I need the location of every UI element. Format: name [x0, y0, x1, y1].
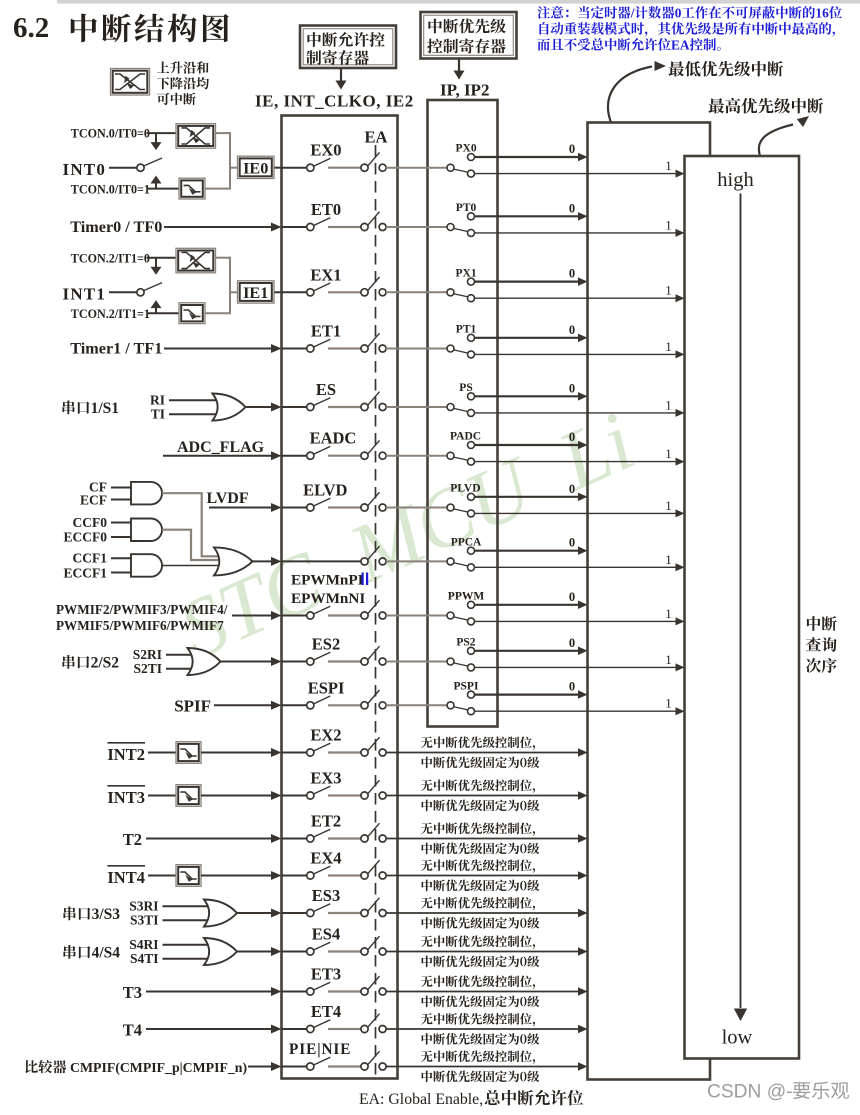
falling-edge detector box (INT0) [179, 178, 205, 199]
falling-edge detector box (INT3) [176, 785, 201, 807]
both-edge detector box (INT0) [176, 124, 216, 149]
wire into priority switch PPCA [428, 560, 448, 562]
priority-1 wire PT1 [474, 353, 675, 355]
enable switch ES3 [307, 909, 314, 916]
wire IE1 to enable box [275, 291, 282, 293]
svg-text:Timer0 / TF0: Timer0 / TF0 [70, 218, 162, 236]
svg-text:EA: Global Enable,: EA: Global Enable, [359, 1091, 483, 1108]
EA switch contact [361, 504, 368, 511]
priority-0 wire PT1 [474, 337, 578, 339]
falling-edge detector box (INT2) [176, 742, 201, 764]
svg-text:TCON.2/IT1=0: TCON.2/IT1=0 [71, 251, 150, 265]
EA switch contact [361, 223, 368, 230]
priority-0 wire PPCA [474, 550, 578, 552]
priority-0 wire PS2 [474, 650, 578, 652]
wire EX3 to EA switch [328, 794, 361, 796]
label 中断查询次序 [807, 616, 821, 631]
wire Timer1 to enable box [164, 348, 273, 350]
level-0 interrupt box (lowest priority) [588, 123, 711, 1080]
svg-text:1/S1: 1/S1 [91, 400, 119, 417]
enable switch ES4 [307, 948, 314, 955]
svg-text:S2RI: S2RI [133, 647, 162, 662]
svg-text:ES: ES [316, 380, 336, 399]
wire EX1 row to priority box [386, 291, 428, 293]
wire ELVD row to priority box [386, 507, 428, 509]
wire ESPI row to priority box [386, 704, 428, 706]
svg-text:PWMIF5/PWMIF6/PWMIF7: PWMIF5/PWMIF6/PWMIF7 [56, 618, 224, 633]
svg-text:S4RI: S4RI [129, 937, 158, 952]
svg-text:PIE|NIE: PIE|NIE [289, 1041, 351, 1058]
EA switch contact [361, 1025, 368, 1032]
wire TCON.2/IT1=1 to falling-edge detector [147, 312, 181, 314]
svg-text:1: 1 [665, 498, 672, 513]
svg-text:3/S3: 3/S3 [92, 906, 121, 923]
enable switch None [307, 612, 314, 619]
wire to lowest-priority box (fixed level 0) [386, 795, 578, 797]
svg-text:IE, INT_CLKO, IE2: IE, INT_CLKO, IE2 [255, 92, 414, 111]
svg-text:ES3: ES3 [312, 886, 340, 905]
selector switch INT0 [137, 164, 144, 171]
wire CMPIF to enable box [248, 1066, 273, 1068]
wire EX0 row to priority box [386, 167, 428, 169]
wire SPIF to enable box [214, 704, 273, 706]
legend both-edge box [111, 69, 150, 96]
svg-text:1: 1 [665, 217, 672, 232]
svg-text:PS2: PS2 [456, 637, 475, 649]
wire to lowest-priority box (fixed level 0) [386, 752, 578, 754]
wire PWMIF to enable box [232, 615, 273, 617]
label: no priority control bits [421, 936, 433, 948]
wire ES row to priority box [386, 406, 428, 408]
svg-text:CMPIF(CMPIF_p|CMPIF_n): CMPIF(CMPIF_p|CMPIF_n) [67, 1060, 247, 1076]
svg-text:/: / [630, 6, 635, 21]
legend text 上升沿和下降沿均可中断 [157, 61, 169, 72]
input 串口2/S2 [62, 655, 74, 669]
priority-1 wire PSPI [474, 710, 675, 712]
EA dashed control line [375, 145, 377, 1078]
note (blue): timer0 NMI remark [537, 6, 550, 19]
svg-text:ES2: ES2 [312, 635, 340, 654]
wire INT2 to falling-edge detector [148, 752, 176, 754]
EA switch contact [361, 1063, 368, 1070]
svg-text:INT1: INT1 [63, 285, 107, 304]
svg-text:T2: T2 [123, 830, 142, 849]
wire OR output to enable box [220, 661, 273, 663]
curved arrow to lowest priority [608, 67, 652, 123]
svg-text:IP, IP2: IP, IP2 [440, 81, 489, 100]
priority-1 wire PPWM [474, 620, 675, 622]
label: no priority control bits [421, 860, 433, 872]
wire to lowest-priority box (fixed level 0) [386, 951, 578, 953]
input 串口3/S3 [63, 906, 75, 920]
EA switch contact [361, 403, 368, 410]
svg-text:1: 1 [665, 652, 672, 667]
svg-text:EX2: EX2 [310, 726, 341, 745]
svg-text:4/S4: 4/S4 [92, 945, 121, 962]
svg-text:1: 1 [665, 397, 672, 412]
priority-0 wire PX1 [474, 281, 578, 283]
svg-text:TCON.0/IT0=1: TCON.0/IT0=1 [71, 182, 150, 196]
svg-text:INT0: INT0 [63, 160, 107, 179]
wire IE1 to EX1 switch [282, 291, 307, 293]
EA switch contact [361, 909, 368, 916]
svg-text:PT0: PT0 [456, 202, 477, 214]
wire detectors to IE1 flag [216, 257, 231, 259]
label: no priority control bits [421, 1013, 433, 1025]
EA switch contact [361, 612, 368, 619]
wire INT4 into enable box [201, 875, 273, 877]
EA switch contact [361, 872, 368, 879]
svg-text:TCON.2/IT1=1: TCON.2/IT1=1 [71, 307, 150, 321]
wire into priority switch PX0 [428, 167, 448, 169]
svg-text:0: 0 [569, 201, 575, 215]
wire into priority switch PS2 [428, 661, 448, 663]
IE1 flag box [238, 281, 275, 303]
svg-text:PX1: PX1 [456, 267, 477, 279]
wires into CCF1 AND gate [111, 557, 134, 559]
svg-text:0: 0 [675, 6, 682, 21]
wire CF-AND to PCA OR gate [162, 493, 221, 556]
enable switch EX3 [307, 792, 314, 799]
EA switch contact [361, 558, 368, 565]
wire ESPI to EA switch [328, 704, 361, 706]
svg-text:ECF: ECF [80, 493, 107, 508]
wire to lowest-priority box (fixed level 0) [386, 1066, 578, 1068]
svg-text:1: 1 [665, 606, 672, 621]
wire EX1 to EA switch [328, 291, 361, 293]
svg-text:2/S2: 2/S2 [91, 655, 120, 672]
AND gate CCF0&ECCF0 [131, 519, 162, 542]
svg-text:ADC_FLAG: ADC_FLAG [177, 439, 265, 456]
wires into OR gate [163, 944, 212, 946]
svg-text:IE0: IE0 [243, 159, 268, 177]
input 串口4/S4 [63, 945, 75, 959]
svg-text:low: low [722, 1027, 753, 1049]
svg-text:1: 1 [665, 283, 672, 298]
priority-0 wire PS [474, 395, 578, 397]
enable switch EX1 [307, 289, 314, 296]
page top gray bar [57, 0, 860, 4]
label: no priority control bits [421, 823, 433, 835]
wire to lowest-priority box (fixed level 0) [386, 875, 578, 877]
svg-text:Timer1 / TF1: Timer1 / TF1 [70, 340, 162, 358]
interrupt polling order arrow [740, 194, 742, 1009]
wire T2 to enable box [146, 838, 273, 840]
svg-text:LVDF: LVDF [207, 490, 249, 507]
wire into priority switch PT0 [428, 226, 448, 228]
enable switch ET1 [307, 345, 314, 352]
priority-1 wire PS2 [474, 666, 675, 668]
svg-text:PSPI: PSPI [454, 680, 479, 692]
priority-0 wire PX0 [474, 156, 578, 158]
svg-text:EX0: EX0 [310, 141, 341, 160]
arrow from priority register box [458, 59, 460, 71]
wire into priority switch PADC [428, 455, 448, 457]
svg-text:CSDN @-: CSDN @- [707, 1082, 793, 1103]
svg-text:0: 0 [569, 267, 575, 281]
wire T4 to enable box [146, 1028, 273, 1030]
svg-text:0: 0 [569, 430, 575, 444]
wire into priority switch PLVD [428, 507, 448, 509]
wire OR output to enable box [236, 912, 273, 914]
enable switch ES2 [307, 658, 314, 665]
wire TCON.0/IT0=0 to both-edge detector [147, 132, 177, 134]
enable switch PIE|NIE [307, 1063, 314, 1070]
wire ET1 to EA switch [328, 347, 361, 349]
wire ES4 to EA switch [328, 950, 361, 952]
priority-1 wire PT0 [474, 232, 675, 234]
wire ADC_FLAG to enable box [163, 455, 273, 457]
wire to lowest-priority box (fixed level 0) [386, 991, 578, 993]
svg-text:1: 1 [665, 696, 672, 711]
wire CCF0-AND to PCA OR gate [162, 530, 220, 560]
wire into priority switch PSPI [428, 704, 448, 706]
svg-text:S4TI: S4TI [130, 951, 159, 966]
EA switch contact [361, 452, 368, 459]
svg-text:EADC: EADC [310, 429, 357, 448]
svg-text:PT1: PT1 [456, 324, 477, 336]
svg-text:PWMIF2/PWMIF3/PWMIF4/: PWMIF2/PWMIF3/PWMIF4/ [56, 602, 228, 617]
svg-text:EPWMnNI: EPWMnNI [291, 590, 365, 607]
wire TCON.0/IT0=1 to falling-edge detector [147, 188, 181, 190]
input 比较器 CMPIF [25, 1060, 37, 1073]
wire Timer0 to enable box [164, 226, 273, 228]
svg-text:ECCF1: ECCF1 [64, 566, 108, 581]
priority-1 wire PADC [474, 461, 675, 463]
wire TCON.2/IT1=0 to both-edge detector [147, 257, 177, 259]
wire EX2 to EA switch [328, 751, 361, 753]
wire EX4 to EA switch [328, 874, 361, 876]
EA switch contact [361, 749, 368, 756]
svg-text:1: 1 [665, 446, 672, 461]
curved arrow to highest priority [759, 125, 793, 157]
wire PCA row to priority box [386, 560, 428, 562]
EA switch contact [361, 164, 368, 171]
wire into priority switch PT1 [428, 348, 448, 350]
wire ET2 to EA switch [328, 837, 361, 839]
AND gate CF&ECF [131, 482, 162, 505]
wire PCA row to EA switch [282, 560, 361, 562]
svg-text:IE1: IE1 [243, 284, 268, 302]
svg-text:0: 0 [569, 381, 575, 395]
svg-text:0: 0 [569, 680, 575, 694]
wire ELVD to EA switch [328, 506, 361, 508]
register box 中断优先级控制寄存器 [421, 12, 517, 59]
priority-0 wire PPWM [474, 604, 578, 606]
label: no priority control bits [421, 1051, 433, 1063]
EA switch contact [361, 702, 368, 709]
lowest-priority label 最低优先级中断 [668, 61, 684, 76]
EA switch contact [361, 792, 368, 799]
label: no priority control bits [421, 737, 433, 749]
wire PIE|NIE to EA switch [328, 1065, 361, 1067]
AND gate CCF1&ECCF1 [131, 554, 162, 577]
falling-edge detector box (INT1) [179, 303, 205, 324]
wire ES2 row to priority box [386, 661, 428, 663]
svg-text:0: 0 [569, 482, 575, 496]
wire IE0 to enable box [275, 167, 282, 169]
wire row to EA switch [328, 614, 361, 616]
svg-text:6.2: 6.2 [13, 12, 49, 44]
wires into OR gate [169, 399, 220, 401]
priority-0 wire PLVD [474, 496, 578, 498]
svg-text:0: 0 [569, 142, 575, 156]
enable switch ET3 [307, 988, 314, 995]
priority-0 wire PSPI [474, 693, 578, 695]
svg-text:INT4: INT4 [107, 868, 145, 887]
enable switch ESPI [307, 702, 314, 709]
priority-0 wire PADC [474, 444, 578, 446]
svg-text:ES4: ES4 [312, 925, 340, 944]
EA switch contact [361, 345, 368, 352]
enable switch EX2 [307, 749, 314, 756]
svg-text:high: high [717, 169, 753, 191]
EA switch contact [361, 289, 368, 296]
selector switch INT1 [137, 289, 144, 296]
svg-text:0: 0 [569, 323, 575, 337]
enable switch ET4 [307, 1025, 314, 1032]
svg-text:ET3: ET3 [311, 965, 341, 984]
wire INT3 to falling-edge detector [148, 795, 176, 797]
EA switch contact [361, 988, 368, 995]
svg-text:PPWM: PPWM [448, 591, 485, 603]
wire to lowest-priority box (fixed level 0) [386, 1028, 578, 1030]
svg-text:TCON.0/IT0=0: TCON.0/IT0=0 [71, 127, 150, 141]
falling-edge detector box (INT4) [176, 865, 201, 887]
OR gate 串口4/S4 [204, 938, 237, 965]
enable switch EX4 [307, 872, 314, 879]
OR gate 串口3/S3 [204, 900, 237, 927]
enable switch EADC [307, 452, 314, 459]
wire INT2 into enable box [201, 752, 273, 754]
svg-text:ET4: ET4 [311, 1002, 341, 1021]
both-edge detector box (INT1) [176, 248, 216, 272]
svg-text:PLVD: PLVD [450, 483, 480, 495]
svg-text:PX0: PX0 [456, 143, 477, 155]
wire T3 to enable box [146, 991, 273, 993]
interrupt enable box [282, 116, 398, 1079]
svg-text:T3: T3 [123, 983, 142, 1002]
wire ET0 to EA switch [328, 226, 361, 228]
wire IE0 to EX0 switch [282, 167, 307, 169]
register box 中断允许控制寄存器 [300, 26, 396, 69]
wire EADC row to priority box [386, 455, 428, 457]
IE0 flag box [238, 156, 275, 178]
svg-text:ET2: ET2 [311, 812, 341, 831]
priority-1 wire PX0 [474, 173, 675, 175]
label: no priority control bits [421, 976, 433, 988]
wire EADC to EA switch [328, 455, 361, 457]
enable switch ET0 [307, 223, 314, 230]
svg-text:ECCF0: ECCF0 [64, 530, 108, 545]
wire ET1 row to priority box [386, 348, 428, 350]
wires into CF AND gate [111, 487, 134, 489]
EA switch contact [361, 835, 368, 842]
svg-text:RI: RI [150, 392, 165, 407]
label: no priority control bits [421, 780, 433, 792]
wires into OR gate [163, 905, 212, 907]
wire INT3 into enable box [201, 795, 273, 797]
wire LVDF to enable box [209, 507, 273, 509]
svg-text:S3TI: S3TI [130, 912, 159, 927]
svg-text:CCF1: CCF1 [73, 551, 108, 566]
wires into OR gate [166, 654, 195, 656]
svg-text:0: 0 [569, 536, 575, 550]
wire to lowest-priority box (fixed level 0) [386, 912, 578, 914]
svg-text:EA: EA [365, 128, 388, 147]
svg-text:EX3: EX3 [310, 769, 341, 788]
label: no priority control bits [421, 897, 433, 909]
wire into priority switch PX1 [428, 291, 448, 293]
svg-text:S2TI: S2TI [134, 661, 163, 676]
enable switch ES [307, 403, 314, 410]
enable switch ELVD [307, 504, 314, 511]
svg-text:16: 16 [815, 6, 829, 21]
svg-text:EX1: EX1 [310, 265, 341, 284]
highest-priority label 最高优先级中断 [708, 98, 724, 113]
svg-text:EX4: EX4 [310, 849, 341, 868]
wire OR output to enable box [245, 406, 273, 408]
wire detectors to IE0 flag [216, 132, 231, 134]
priority-1 wire PLVD [474, 512, 675, 514]
svg-text:0: 0 [569, 590, 575, 604]
wire into priority switch PS [428, 406, 448, 408]
EA switch contact [361, 658, 368, 665]
wires into CCF0 AND gate [111, 522, 134, 524]
svg-text:PPCA: PPCA [451, 536, 482, 548]
svg-text:SPIF: SPIF [174, 696, 211, 715]
PCA OR gate [214, 547, 253, 575]
wire EPWM row to priority box [386, 615, 428, 617]
svg-text:CCF0: CCF0 [73, 515, 108, 530]
wire ET3 to EA switch [328, 990, 361, 992]
svg-text:1: 1 [665, 158, 672, 173]
wire INT4 to falling-edge detector [148, 875, 176, 877]
priority register box outline [428, 100, 498, 727]
input 串口1/S1 [62, 400, 74, 414]
wire OR output to enable box [236, 951, 273, 953]
svg-text:ESPI: ESPI [308, 678, 345, 697]
OR gate 串口2/S2 [188, 648, 221, 675]
wire into priority switch PPWM [428, 615, 448, 617]
svg-text:ELVD: ELVD [303, 481, 347, 500]
wire ET4 to EA switch [328, 1028, 361, 1030]
svg-text:TI: TI [151, 406, 165, 421]
enable switch EX0 [307, 164, 314, 171]
enable switch ET2 [307, 835, 314, 842]
priority-1 wire PS [474, 412, 675, 414]
svg-text:ET0: ET0 [311, 200, 341, 219]
svg-text:1: 1 [665, 339, 672, 354]
svg-text:PADC: PADC [450, 431, 481, 443]
wire ES to EA switch [328, 406, 361, 408]
priority-0 wire PT0 [474, 215, 578, 217]
svg-text:1: 1 [665, 552, 672, 567]
wire PCA OR to enable box [252, 560, 273, 562]
wire CCF1-AND to PCA OR gate [162, 565, 218, 567]
svg-text:T4: T4 [123, 1021, 142, 1040]
wire to lowest-priority box (fixed level 0) [386, 838, 578, 840]
OR gate 串口1/S1 [213, 394, 246, 421]
svg-text:INT3: INT3 [107, 788, 145, 807]
svg-text:ET1: ET1 [311, 322, 341, 341]
priority-1 wire PPCA [474, 566, 675, 568]
svg-text:EA: EA [671, 38, 690, 53]
EA switch contact [361, 948, 368, 955]
svg-text:S3RI: S3RI [129, 898, 158, 913]
svg-text:0: 0 [569, 636, 575, 650]
priority-1 wire PX1 [474, 297, 675, 299]
